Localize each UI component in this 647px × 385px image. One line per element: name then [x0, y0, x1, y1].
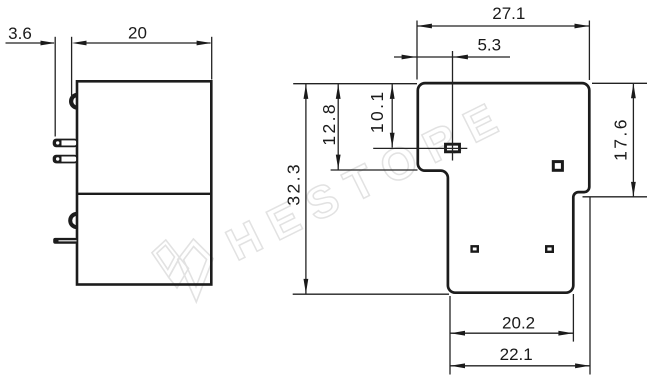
- dim 5.3 line: [394, 56, 510, 58]
- dim 27.1 line: [417, 25, 589, 27]
- dim 32.3 top extension: [293, 83, 417, 85]
- dim 17.6 bottom extension: [583, 196, 647, 198]
- pin 1 (upper): [53, 139, 77, 147]
- svg-text:17.6: 17.6: [611, 117, 631, 161]
- watermark logo: [152, 239, 213, 302]
- pad 1 horizontal centerline: [373, 147, 467, 149]
- dim 22.1 line: [450, 365, 590, 367]
- pad 4 square: [546, 246, 553, 252]
- svg-text:10.1: 10.1: [367, 89, 387, 133]
- dim 27.1 extension lines: [416, 21, 418, 80]
- dim 20 extension line: [211, 37, 213, 80]
- dim 12.8 bottom extension: [331, 169, 418, 171]
- dim 3.6 extension line 2: [71, 37, 73, 97]
- dim 20.2 line: [450, 332, 573, 334]
- lower ring half: [70, 214, 77, 227]
- dim 17.6 line: [632, 83, 634, 197]
- dim 20 right arrow: [197, 41, 212, 46]
- dim 12.8 line: [337, 84, 339, 170]
- pin 3 (lower): [53, 238, 77, 244]
- body divider line: [77, 193, 211, 195]
- relay body outline: [77, 81, 211, 284]
- dim 10.1 line: [391, 84, 393, 148]
- svg-text:3.6: 3.6: [8, 24, 32, 43]
- pad 1 vertical centerline: [452, 51, 454, 161]
- svg-text:12.8: 12.8: [319, 102, 339, 146]
- pin 2: [53, 155, 77, 163]
- pad 3 square: [472, 246, 478, 251]
- svg-text:20.2: 20.2: [502, 313, 535, 332]
- dim 3.6 extension line 1: [54, 37, 56, 137]
- dim 3.6 line + left arrow: [6, 42, 55, 44]
- dim 17.6 top extension: [592, 82, 647, 84]
- dim 20 line: [86, 42, 211, 44]
- footprint outline: [418, 83, 590, 293]
- top bump half-ring: [71, 95, 77, 108]
- svg-text:20: 20: [128, 24, 147, 43]
- dim 32.3 line: [305, 84, 307, 294]
- pad 1 (rect with crosshair): [446, 144, 460, 152]
- svg-text:27.1: 27.1: [492, 4, 525, 23]
- dim 22.1 right extension line: [589, 198, 591, 375]
- svg-text:22.1: 22.1: [500, 345, 533, 364]
- svg-text:32.3: 32.3: [284, 162, 304, 206]
- dim 3.6 right arrow / 20 left arrow: [72, 41, 87, 46]
- svg-text:5.3: 5.3: [477, 35, 501, 54]
- dim 20.2 extension lines: [449, 296, 451, 375]
- pad 2 square: [553, 162, 562, 171]
- dim 32.3 bottom extension: [293, 293, 449, 295]
